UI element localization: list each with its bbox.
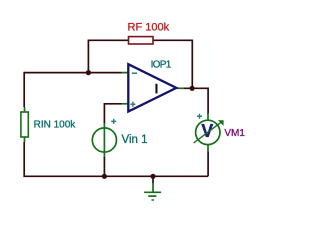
svg-text:IOP1: IOP1 bbox=[151, 60, 172, 71]
node junction output bbox=[190, 86, 195, 91]
wire Vin top vertical bbox=[103, 103, 105, 124]
voltage source Vin plus polarity mark bbox=[111, 119, 116, 124]
op-amp IOP1 output lead (green stub) bbox=[177, 87, 185, 89]
voltmeter VM1 (circle) bbox=[196, 120, 220, 144]
wire top-left horizontal (inverting input net) bbox=[24, 72, 121, 74]
voltmeter VM1 arrow bbox=[194, 120, 224, 143]
op-amp IOP1 inverting input minus mark bbox=[132, 72, 137, 74]
svg-text:V: V bbox=[201, 121, 213, 141]
svg-text:Vin 1: Vin 1 bbox=[122, 134, 148, 146]
op-amp IOP1 input leads (green stubs) bbox=[122, 73, 129, 104]
svg-text:RF 100k: RF 100k bbox=[128, 22, 170, 34]
voltmeter VM1 plus polarity mark bbox=[197, 114, 202, 119]
voltage source Vin internal bar bbox=[103, 128, 105, 152]
wire feedback horizontal to RF bbox=[88, 39, 129, 41]
resistor RIN leads bbox=[24, 107, 26, 142]
wire left vertical lower (RIN bottom to ground rail) bbox=[23, 142, 25, 176]
svg-text:VM1: VM1 bbox=[224, 128, 245, 139]
svg-text:RIN 100k: RIN 100k bbox=[34, 120, 77, 131]
wire RF to right corner bbox=[153, 39, 192, 41]
wire left vertical upper (to RIN top) bbox=[23, 72, 25, 107]
resistor RF value label bbox=[128, 22, 170, 34]
op-amp IOP1 (triangle) bbox=[128, 64, 176, 111]
ground (symbol) bbox=[144, 183, 161, 200]
voltage source Vin leads (green stubs) bbox=[103, 123, 105, 157]
voltmeter VM1 label bbox=[224, 128, 245, 139]
voltmeter VM1 leads (green stubs) bbox=[207, 113, 209, 152]
wire bottom ground rail bbox=[23, 175, 208, 177]
resistor RIN (body) bbox=[21, 112, 28, 137]
wire feedback vertical left bbox=[87, 40, 89, 72]
wire output node down to voltmeter bbox=[207, 88, 209, 114]
resistor RIN value label bbox=[34, 120, 77, 131]
wire op-amp output to node bbox=[184, 87, 209, 89]
node junction Vin ground bbox=[102, 174, 107, 179]
node junction ground rail bbox=[150, 174, 155, 179]
wire Vin bottom to ground rail bbox=[103, 157, 105, 177]
op-amp IOP1 reference label bbox=[151, 60, 172, 71]
wire voltmeter bottom to ground rail bbox=[207, 152, 209, 177]
voltmeter VM1 letter V bbox=[201, 121, 213, 141]
op-amp IOP1 ideal marking I bbox=[155, 84, 157, 94]
op-amp IOP1 noninverting input plus mark bbox=[130, 102, 135, 107]
voltage source Vin (circle) bbox=[92, 128, 116, 152]
wire op-amp noninverting input horizontal bbox=[104, 103, 121, 105]
wire ground stub bbox=[152, 176, 154, 183]
wire feedback vertical right (down to output node) bbox=[191, 40, 193, 89]
voltage source Vin label bbox=[122, 134, 148, 146]
node junction inverting input bbox=[86, 70, 91, 75]
resistor RF (body) bbox=[129, 37, 154, 44]
